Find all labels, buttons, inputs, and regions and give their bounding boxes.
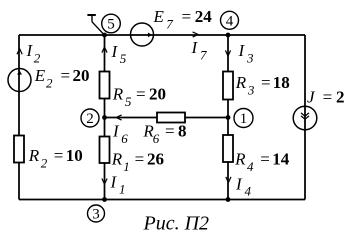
junction dot node2: [102, 115, 107, 120]
junction dot bottom-right branch: [226, 197, 231, 202]
label E2 = 20: [34, 66, 90, 91]
junction dot node3: [102, 197, 107, 202]
label I4: [235, 175, 252, 199]
label E7 = 24: [153, 7, 213, 31]
svg-text:4: 4: [226, 14, 234, 30]
emf source E2: [8, 69, 31, 92]
label I1: [110, 173, 126, 197]
switch at node 5: [87, 15, 104, 35]
wire bottom: [19, 199, 305, 201]
label R1 = 26: [111, 149, 164, 173]
label R6 = 8: [142, 122, 186, 146]
node circle 5: [102, 14, 121, 33]
node circle 3: [88, 205, 105, 223]
emf source E7: [131, 23, 154, 46]
resistor R6: [157, 113, 185, 123]
label I3: [238, 41, 255, 66]
junction dot node4: [226, 33, 231, 38]
label R4 = 14: [234, 150, 290, 174]
current arrow I2: [17, 49, 22, 55]
junction dot node1: [226, 115, 231, 120]
wire right: [304, 35, 306, 200]
current arrow I6: [116, 115, 122, 120]
node circle 1: [234, 109, 253, 128]
junction dot node5: [102, 33, 107, 38]
node circle 2: [81, 109, 99, 127]
resistor R5: [100, 72, 110, 99]
resistor R3: [223, 72, 233, 100]
label R5 = 20: [112, 85, 166, 109]
label I2: [26, 41, 41, 66]
wire middle-right vertical: [227, 35, 229, 200]
node circle 4: [221, 11, 239, 29]
current arrow I1: [102, 179, 107, 185]
label I7: [191, 38, 208, 63]
svg-text:2: 2: [86, 111, 94, 127]
current arrow I4: [226, 177, 231, 183]
current arrow I5: [102, 47, 107, 53]
current arrow I3: [225, 50, 230, 56]
wire middle-left vertical: [104, 35, 106, 200]
current source J: [293, 106, 317, 130]
svg-text:5: 5: [107, 17, 115, 33]
label I6: [112, 122, 128, 147]
current arrow I7: [193, 32, 199, 37]
svg-text:Рис. П2: Рис. П2: [143, 213, 210, 235]
label I5: [111, 42, 127, 66]
label R3 = 18: [235, 73, 290, 97]
resistor R1: [100, 137, 110, 164]
svg-text:J=2: J=2: [307, 88, 345, 107]
label R2 = 10: [28, 146, 83, 170]
wire middle horizontal: [105, 117, 229, 119]
caption Рис. П2: [143, 213, 210, 235]
resistor R2: [14, 136, 24, 163]
svg-text:3: 3: [92, 207, 100, 223]
resistor R4: [223, 135, 233, 162]
wire left: [18, 35, 20, 200]
wire top: [19, 34, 305, 36]
label J = 2: [307, 88, 345, 107]
svg-text:1: 1: [240, 111, 248, 127]
